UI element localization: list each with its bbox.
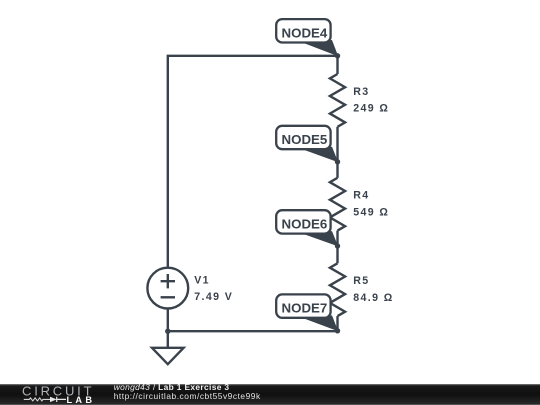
node NODE6 junction dot [335, 243, 340, 248]
wire R3 to NODE5 [336, 127, 338, 162]
resistor R3 [330, 74, 345, 127]
svg-text:LAB: LAB [67, 395, 96, 405]
footer bar background [0, 385, 540, 405]
svg-text:84.9 Ω: 84.9 Ω [353, 292, 393, 304]
wire from NODE4 junction to V1 top (horizontal + vertical) [168, 56, 338, 268]
wire R5 to NODE7 [336, 316, 338, 331]
svg-text:V1: V1 [194, 275, 210, 287]
svg-text:http://circuitlab.com/cbt55v9c: http://circuitlab.com/cbt55v9cte99k [114, 391, 261, 401]
node NODE6 callout label [276, 210, 338, 246]
svg-text:R3: R3 [353, 86, 369, 98]
svg-text:R4: R4 [353, 190, 369, 202]
node NODE7 callout label [276, 294, 338, 331]
svg-text:249 Ω: 249 Ω [353, 103, 389, 115]
resistor R4 [330, 178, 345, 231]
svg-text:7.49 V: 7.49 V [194, 291, 233, 303]
resistor R5 [330, 263, 345, 316]
node NODE5 callout label [276, 126, 338, 162]
CircuitLab logo diode [50, 397, 57, 402]
wire NODE4 to R3 [336, 56, 338, 74]
voltage source V1 [147, 268, 188, 309]
svg-text:NODE7: NODE7 [282, 301, 328, 316]
CircuitLab logo resistor squiggle [24, 398, 50, 401]
svg-text:NODE5: NODE5 [282, 132, 328, 147]
junction at V1 bottom [165, 329, 170, 334]
wire V1 bottom lead vertical [167, 309, 169, 332]
node NODE4 callout label [276, 19, 338, 56]
ground [152, 331, 184, 364]
svg-text:R5: R5 [353, 275, 369, 287]
node NODE7 junction dot [335, 328, 340, 333]
svg-text:NODE6: NODE6 [282, 217, 328, 232]
wire NODE6 to R5 [336, 246, 338, 263]
wire R4 to NODE6 [336, 231, 338, 246]
svg-text:549 Ω: 549 Ω [353, 206, 389, 218]
wire NODE5 to R4 [336, 162, 338, 178]
svg-text:NODE4: NODE4 [282, 25, 328, 40]
node NODE5 junction dot [335, 159, 340, 164]
node NODE4 junction dot [335, 53, 340, 58]
wire bottom horizontal [168, 330, 338, 332]
